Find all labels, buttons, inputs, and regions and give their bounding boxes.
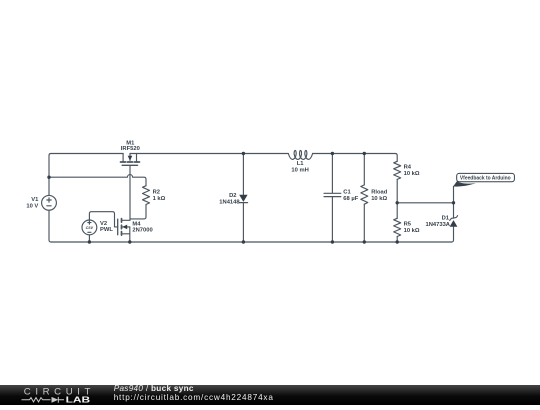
junction node C1 bottom <box>331 240 334 243</box>
svg-text:IRF520: IRF520 <box>121 146 140 152</box>
resistor R4 zigzag <box>394 161 401 179</box>
wire: R5 bottom lead to ground <box>396 237 398 243</box>
logo mini schematic: wire <box>22 397 65 403</box>
wire: ground rail <box>51 241 452 243</box>
wire: switch node rail (M1 source to L1) <box>130 153 288 155</box>
transistor M4 body arrow <box>122 225 127 230</box>
wire: Rload top lead <box>363 154 365 185</box>
wire: output rail (L1 to R4 corner) <box>313 154 398 162</box>
svg-text:10 kΩ: 10 kΩ <box>404 228 420 234</box>
svg-text:D2: D2 <box>229 193 236 199</box>
svg-text:Rload: Rload <box>371 189 388 195</box>
label L1 value <box>291 161 308 173</box>
junction node D2 top <box>242 152 245 155</box>
label V2 value <box>100 221 113 233</box>
zener D1 triangle <box>450 220 458 227</box>
voltage source V2 (PWL) <box>82 220 97 235</box>
wire: V1 minus lead to ground <box>49 210 51 242</box>
svg-text:LAB: LAB <box>66 395 91 404</box>
svg-text:2N7000: 2N7000 <box>132 227 152 233</box>
transistor M1 source stub <box>136 154 138 162</box>
svg-text:V1: V1 <box>31 197 39 203</box>
label Rload value <box>371 189 388 202</box>
junction node feedback divider <box>396 201 399 204</box>
junction node Rload top <box>363 152 366 155</box>
wire: feedback node horizontal to D1 <box>397 202 453 204</box>
transistor M1 drain stub <box>122 154 124 162</box>
label C1 value <box>343 189 358 202</box>
resistor R5 zigzag <box>394 218 401 236</box>
label R2 value <box>153 189 166 202</box>
wire: V2 to M4 gate <box>89 212 117 227</box>
voltage source V1 <box>42 195 57 210</box>
transistor M4 source stub <box>122 233 130 235</box>
transistor M1 body arrow <box>128 156 133 161</box>
svg-text:10 kΩ: 10 kΩ <box>404 171 420 177</box>
wire: D1 zener lead <box>453 203 455 218</box>
wire: V1 plus lead up to top rail <box>48 156 50 196</box>
wire: M1 gate lead down to M4 drain node <box>129 166 131 221</box>
label V1 value <box>26 197 39 210</box>
transistor M4 gate bar <box>117 219 119 235</box>
transistor M1 channel bars <box>121 161 140 163</box>
wire: V2 minus lead to ground <box>88 235 90 242</box>
svg-text:1N4148: 1N4148 <box>219 200 240 206</box>
wire: R2 bottom to gate node <box>130 205 146 219</box>
node Vfeedback callout box <box>453 173 514 186</box>
svg-text:C1: C1 <box>343 189 351 195</box>
label M4 name <box>132 221 152 233</box>
label R4 value <box>404 165 420 177</box>
node Vfeedback callout tail <box>453 181 476 186</box>
label D2 value <box>219 193 240 206</box>
junction node M4 source ground <box>128 240 131 243</box>
resistor R2 zigzag <box>143 186 150 205</box>
svg-text:R5: R5 <box>404 222 412 228</box>
wire: ground rail right corner up to D1 anode <box>452 227 454 242</box>
capacitor C1 plates <box>324 193 341 196</box>
junction node D2 bottom <box>242 240 245 243</box>
label D1 value <box>426 215 451 228</box>
svg-text:1 kΩ: 1 kΩ <box>153 196 166 202</box>
transistor M1 gate bar <box>122 164 138 166</box>
wire: D2 anode lead <box>242 154 244 196</box>
svg-text:10 V: 10 V <box>26 204 38 210</box>
junction node R5 ground <box>396 240 399 243</box>
svg-text:PWL: PWL <box>100 227 113 233</box>
transistor M4 channel bars <box>121 219 123 236</box>
transistor M4 body stub <box>122 226 130 228</box>
svg-text:10 mH: 10 mH <box>291 168 308 174</box>
junction node D1 feedback <box>452 201 455 204</box>
svg-text:R2: R2 <box>153 189 160 195</box>
wire: R4 bottom lead to feedback node <box>396 179 398 202</box>
svg-text:CSV: CSV <box>86 226 94 230</box>
wire: gate feed from V1 node with hop over gate lead <box>49 175 146 186</box>
svg-text:D1: D1 <box>442 215 450 221</box>
junction node V2 ground <box>88 240 91 243</box>
logo mini schematic: diode <box>52 397 59 403</box>
svg-text:http://circuitlab.com/ccw4h224: http://circuitlab.com/ccw4h224874xa <box>114 393 274 402</box>
wire: top rail left segment (V1 to M1 drain) <box>49 154 123 156</box>
junction node C1 top <box>331 152 334 155</box>
wire: R5 top lead <box>396 203 398 219</box>
resistor Rload zigzag <box>361 185 368 204</box>
footer bar <box>0 385 540 405</box>
wire: C1 bottom lead <box>331 197 333 242</box>
transistor M4 body-source join to ground <box>129 227 131 242</box>
svg-text:68 µF: 68 µF <box>343 196 358 202</box>
wire: D2 cathode lead to ground <box>242 203 244 242</box>
wire: Rload bottom lead <box>363 204 365 242</box>
transistor M1 body stub <box>129 154 131 161</box>
svg-text:L1: L1 <box>297 161 305 167</box>
wire: C1 top lead <box>331 154 333 194</box>
zener D1 cathode bar <box>450 216 458 221</box>
svg-text:R4: R4 <box>404 165 412 171</box>
svg-text:10 kΩ: 10 kΩ <box>371 196 387 202</box>
inductor L1 coil <box>288 150 312 159</box>
svg-text:1N4733A: 1N4733A <box>426 222 451 228</box>
wire: M4 drain stub <box>122 219 130 221</box>
diode D2 cathode bar <box>239 202 247 204</box>
wire: D1 cathode lead up to callout tail <box>453 186 455 203</box>
label R5 value <box>404 222 420 234</box>
svg-text:Vfeedback to Arduino: Vfeedback to Arduino <box>460 176 512 182</box>
junction node on V1 feed <box>47 176 50 179</box>
svg-text:Pas940 / buck sync: Pas940 / buck sync <box>114 385 194 393</box>
label M1 name <box>121 141 140 152</box>
diode D2 triangle <box>239 195 247 202</box>
junction node Rload bottom <box>363 240 366 243</box>
